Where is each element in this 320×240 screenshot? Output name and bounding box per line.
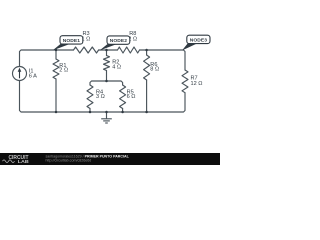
wire: right vertical lower [20,81,186,113]
svg-text:http://circuitlab.com/c826e6d: http://circuitlab.com/c826e6d [46,158,92,162]
label R1 value [59,63,68,74]
svg-text:2 Ω: 2 Ω [59,68,68,74]
svg-text:NODE1: NODE1 [63,38,81,44]
wire: T bar between R4 and R5 [90,81,123,85]
current source I1 [13,67,27,81]
svg-text:6 Ω: 6 Ω [127,94,136,100]
bottom watermark bar [0,153,220,165]
svg-text:NODE2: NODE2 [110,38,128,44]
label R4 value [96,89,105,100]
wire: R2 upper lead [106,50,108,56]
wire: R4 lower lead [89,109,91,113]
CircuitLab logo [3,155,30,164]
svg-text:6 A: 6 A [29,74,37,80]
wire: R6 upper lead [146,50,148,55]
resistor R2 zigzag [104,56,110,71]
resistor R8 zigzag [118,47,140,53]
resistor R4 zigzag [87,85,93,109]
svg-text:4 Ω: 4 Ω [112,64,121,70]
label R2 value [112,60,121,71]
svg-text:8 Ω: 8 Ω [150,67,159,73]
resistor R6 zigzag [144,55,150,80]
resistor R7 zigzag [182,70,188,93]
wire: R6 lower lead [146,80,148,112]
node NODE2 callout [100,36,130,51]
wire: top rail right segment [140,50,186,70]
label R3 value [82,31,91,42]
wire: R2 lower lead [106,71,108,82]
ground [101,112,112,123]
watermark caption [46,154,130,162]
wire: R5 lower lead [122,109,124,113]
node NODE1 callout [53,36,83,51]
junction dots [55,49,148,114]
svg-text:3 Ω: 3 Ω [96,94,105,100]
node NODE3 callout [182,35,210,50]
svg-text:12 Ω: 12 Ω [191,81,203,87]
wire: R1 branch [55,50,57,59]
wire: top rail left segment [20,50,74,67]
svg-text:NODE3: NODE3 [190,37,208,43]
resistor R5 zigzag [120,85,126,109]
svg-text:LAB: LAB [18,159,30,164]
resistor R3 zigzag [74,47,99,53]
label R8 value [128,31,137,42]
wire: R1 lower lead [55,79,57,112]
label R5 value [127,89,136,100]
label R7 value [191,76,203,87]
wire: top rail mid segment [99,49,118,51]
label I1 value [29,69,37,80]
label R6 value [150,62,159,73]
resistor R1 zigzag [53,59,59,79]
